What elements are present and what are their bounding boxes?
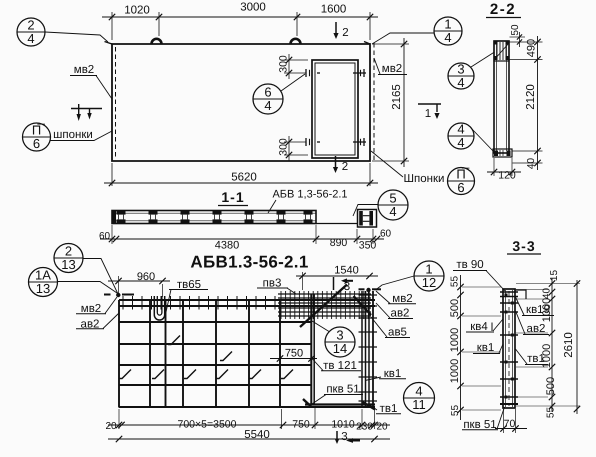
svg-text:750: 750	[292, 419, 310, 431]
dim 5620 bottom of plan	[111, 163, 113, 186]
panel outline	[112, 44, 370, 161]
callout &#1055;&#773;/6	[448, 168, 475, 195]
leader 4/4	[471, 128, 494, 152]
lifting loop 2	[291, 39, 301, 44]
svg-text:1010: 1010	[331, 419, 355, 431]
svg-text:кв19: кв19	[526, 304, 550, 316]
svg-text:2: 2	[342, 161, 348, 173]
section mark 2 top	[335, 22, 337, 33]
svg-text:13: 13	[61, 257, 75, 272]
bottom line across door gap	[316, 223, 358, 225]
svg-text:тв 121: тв 121	[323, 360, 357, 372]
bottom dims row 1	[118, 409, 120, 429]
svg-text:мв2: мв2	[392, 293, 412, 305]
second diagonal bar	[354, 296, 372, 315]
svg-text:1000: 1000	[449, 328, 461, 352]
lintel stirrups	[280, 291, 282, 319]
mesh horizontal bars	[119, 299, 375, 301]
svg-text:ав2: ав2	[391, 308, 410, 320]
leader 5/4	[353, 205, 378, 217]
svg-text:пкв 51: пкв 51	[463, 419, 496, 431]
svg-text:1020: 1020	[124, 5, 150, 17]
svg-text:890: 890	[330, 237, 348, 249]
dim 120 under base	[493, 158, 495, 176]
svg-text:АБВ1.3-56-2.1: АБВ1.3-56-2.1	[190, 253, 308, 272]
svg-text:55: 55	[450, 405, 461, 417]
svg-text:960: 960	[137, 271, 155, 283]
svg-text:кв1: кв1	[384, 368, 402, 380]
300 dims beside opening (top)	[284, 59, 308, 61]
callout 2/4	[17, 18, 45, 46]
svg-text:3000: 3000	[240, 2, 266, 14]
bottom base box	[493, 149, 512, 157]
left edge dashed bar	[115, 47, 117, 159]
svg-text:6: 6	[457, 180, 464, 195]
dim 2165 vertical	[372, 43, 409, 45]
leader 2/13	[83, 259, 118, 295]
section mark 3 top	[333, 277, 335, 290]
svg-text:15: 15	[549, 270, 560, 282]
svg-text:1540: 1540	[334, 265, 358, 277]
dim 750 (door pier)	[270, 358, 317, 360]
opening anchors	[317, 72, 320, 74]
svg-text:2165: 2165	[391, 84, 403, 110]
svg-text:2610: 2610	[563, 332, 575, 358]
svg-text:2: 2	[342, 27, 348, 39]
svg-text:60: 60	[380, 229, 392, 240]
leader Shponki right	[371, 151, 403, 177]
section mark 1 right	[418, 103, 441, 105]
lifting loop 1	[152, 39, 162, 44]
callout 4/11	[404, 383, 435, 414]
svg-text:Шпонки: Шпонки	[404, 173, 445, 185]
svg-text:мв2: мв2	[74, 64, 94, 76]
column ties	[500, 291, 518, 293]
right edge dashed bar	[373, 43, 375, 161]
corner dot right + mv2 dash	[366, 288, 370, 292]
leader 3/4	[471, 52, 495, 67]
svg-text:тв1: тв1	[527, 353, 545, 365]
door edge bars left	[310, 294, 312, 404]
svg-text:40: 40	[542, 288, 553, 300]
svg-text:3: 3	[344, 281, 350, 293]
callout 1/4	[434, 17, 462, 45]
svg-text:5540: 5540	[244, 429, 270, 441]
lintel horizontal bars	[278, 293, 371, 295]
leader 1/12	[376, 276, 415, 290]
hook row	[119, 370, 131, 379]
svg-text:20: 20	[376, 422, 388, 433]
dim 1540	[302, 272, 304, 290]
svg-text:120: 120	[498, 170, 516, 182]
door edge bars right cluster	[361, 291, 363, 407]
svg-text:70: 70	[504, 418, 516, 430]
svg-text:350: 350	[359, 240, 377, 252]
svg-text:4: 4	[457, 75, 464, 90]
top stirrups left part	[122, 296, 124, 310]
dim 70 under column	[503, 409, 505, 433]
svg-text:кв4: кв4	[470, 321, 488, 333]
extension lines top	[111, 12, 113, 40]
top dimension line	[102, 16, 378, 18]
svg-text:тв1: тв1	[380, 403, 398, 415]
svg-text:1600: 1600	[321, 4, 347, 16]
corner dot left + mv2 dashes	[116, 293, 120, 297]
svg-text:1-1: 1-1	[221, 189, 244, 205]
column outline	[503, 289, 515, 408]
svg-text:3-3: 3-3	[512, 238, 535, 254]
right cluster ties	[359, 294, 378, 296]
door bottom thick bar	[305, 403, 375, 405]
keys (shponki) symbols	[71, 108, 102, 110]
top right bracket	[516, 290, 527, 299]
right dim line of 3-3	[551, 278, 553, 412]
mesh vertical bars	[118, 300, 120, 408]
svg-text:АБВ 1,3-56-2.1: АБВ 1,3-56-2.1	[272, 189, 347, 201]
svg-text:4: 4	[264, 98, 271, 113]
svg-text:4: 4	[27, 31, 34, 46]
leader shponki left	[50, 131, 112, 141]
svg-text:40: 40	[526, 158, 537, 170]
right extension lines	[516, 283, 580, 285]
door opening outer	[312, 60, 358, 158]
svg-text:шпонки: шпонки	[53, 129, 93, 141]
callout 5/4	[378, 190, 408, 220]
svg-text:230: 230	[356, 422, 373, 433]
callout &#1055;&#773;/6	[23, 123, 51, 151]
svg-text:ав2: ав2	[527, 323, 546, 335]
bottom dims row 2 (5540)	[108, 438, 390, 440]
svg-text:60: 60	[99, 231, 111, 242]
dim 50	[510, 36, 526, 38]
svg-text:3: 3	[341, 431, 347, 443]
top joint box hatched	[494, 41, 509, 61]
left dim line of 3-3	[460, 275, 462, 420]
left corner chamfer	[105, 42, 113, 45]
section mark 3 bottom	[336, 431, 338, 439]
300 dims beside opening (bottom)	[284, 141, 306, 143]
svg-text:4: 4	[457, 135, 464, 150]
svg-text:300: 300	[278, 138, 290, 156]
svg-text:мв2: мв2	[382, 63, 402, 75]
callout 3/14	[325, 327, 355, 357]
tie bolt marks	[505, 294, 508, 297]
leader 6/4	[281, 74, 305, 91]
svg-text:6: 6	[33, 136, 40, 151]
callout 4/4	[448, 123, 474, 149]
svg-text:700×5=3500: 700×5=3500	[178, 419, 237, 431]
svg-text:4: 4	[444, 30, 451, 45]
dim 960	[118, 276, 120, 293]
svg-text:2120: 2120	[525, 84, 537, 110]
section mark 2 bottom	[335, 156, 337, 167]
svg-text:300: 300	[278, 55, 290, 73]
svg-text:1: 1	[425, 108, 431, 120]
svg-text:4380: 4380	[215, 240, 239, 252]
svg-text:12: 12	[422, 275, 436, 290]
upper hooks	[168, 336, 180, 345]
right corner chamfer	[364, 42, 370, 45]
dims of section 1-1	[111, 225, 113, 244]
callout 2/13	[54, 244, 83, 273]
svg-text:20: 20	[105, 421, 117, 432]
callout 6/4	[253, 84, 283, 114]
beam outline	[112, 211, 316, 224]
callout 3/4	[448, 63, 474, 89]
svg-text:2-2: 2-2	[490, 1, 516, 18]
svg-text:500: 500	[449, 299, 461, 317]
svg-text:5620: 5620	[231, 172, 257, 184]
svg-text:55: 55	[546, 407, 557, 419]
main diagonal bar	[300, 285, 347, 328]
svg-text:1000: 1000	[449, 359, 461, 383]
leader 1/4	[372, 33, 434, 44]
svg-text:490: 490	[526, 39, 538, 57]
leader 2/4	[45, 32, 108, 42]
leader 1A/13	[58, 282, 119, 295]
svg-text:500: 500	[545, 377, 557, 395]
svg-text:пкв 51: пкв 51	[326, 384, 359, 396]
svg-text:мв2: мв2	[81, 303, 101, 315]
hairpin bar tv65	[154, 296, 164, 320]
separate right end piece (350)	[358, 210, 377, 228]
beam web connectors	[117, 211, 126, 215]
svg-text:50: 50	[510, 24, 521, 36]
callout 1А/13	[29, 268, 58, 297]
callout 1/12	[414, 261, 444, 291]
svg-text:13: 13	[36, 281, 50, 296]
beam left end plate	[113, 211, 117, 223]
svg-text:750: 750	[285, 348, 303, 360]
door opening inner	[315, 63, 355, 155]
svg-text:тв 90: тв 90	[456, 259, 483, 271]
overall dim 2610	[576, 280, 578, 414]
svg-text:ав5: ав5	[388, 327, 407, 339]
column body	[494, 41, 509, 153]
svg-text:14: 14	[333, 341, 347, 356]
svg-text:55: 55	[450, 276, 461, 288]
svg-text:4: 4	[389, 204, 396, 219]
dims 490 2120 40 right of column	[510, 41, 543, 43]
leader 3/14	[312, 321, 329, 332]
svg-text:кв1: кв1	[477, 342, 495, 354]
svg-text:11: 11	[412, 397, 426, 412]
